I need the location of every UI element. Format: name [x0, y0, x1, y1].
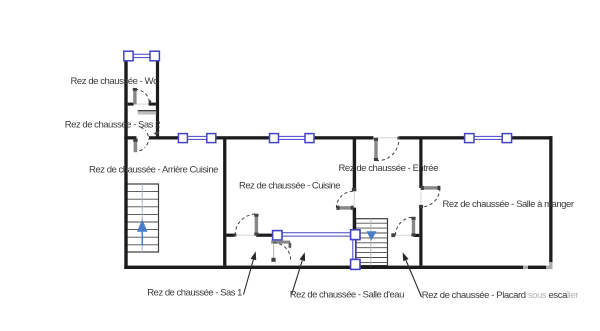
door Sas2 leaf cap [133, 139, 137, 142]
svg-text:Rez de chaussée - Salle à mang: Rez de chaussée - Salle à manger [443, 199, 574, 210]
window W1 square right [207, 134, 216, 143]
door Sas2 swing mark [154, 130, 160, 135]
leader line Placard [406, 260, 422, 297]
door C leaf cap right [437, 186, 440, 190]
leader arrowhead Sas1 [251, 251, 257, 260]
window W3 line [474, 136, 502, 139]
glass wall G2 lines [353, 240, 356, 260]
stairs S1 centerline [141, 184, 143, 252]
window W0 square right [150, 51, 159, 61]
door Wc leaf cap [133, 88, 137, 91]
svg-text:Rez de chaussée - Sas 1: Rez de chaussée - Sas 1 [147, 288, 242, 299]
wall interior V1 [223, 140, 226, 266]
svg-text:Rez de chaussée - Sas 2: Rez de chaussée - Sas 2 [65, 120, 160, 131]
door D leaf cap top [411, 217, 415, 220]
window W3 square left [465, 134, 474, 143]
glass square B [351, 230, 360, 240]
svg-text:Rez de chaussée - Arrière Cuis: Rez de chaussée - Arrière Cuisine [89, 165, 218, 176]
stairs S2 down-arrow [366, 231, 376, 240]
door entrance leaf cap bottom [374, 158, 378, 161]
door Sas1 arc [235, 214, 256, 235]
door entrance hinge stub [397, 137, 400, 140]
window W0 line [133, 54, 150, 57]
window W3 square right [502, 134, 511, 143]
stairs S1 box (Arriere Cuisine) [126, 184, 158, 252]
wall H1 stub left [226, 234, 234, 237]
stairs S1 up-arrow [137, 219, 148, 245]
leader line Sas1 [244, 260, 254, 295]
wall top segment f [512, 136, 553, 139]
door Sas1 hinge stub [234, 234, 237, 237]
stairs S1 treads [126, 192, 158, 245]
door C arc [421, 188, 440, 207]
door E (salle d'eau) top bar [271, 241, 290, 244]
leader arrowhead Salle d'eau [300, 252, 306, 261]
wall top segment b [149, 136, 179, 139]
door E hinge cap [271, 258, 275, 262]
door B arc [336, 191, 353, 208]
door B (cuisine) leaf [337, 206, 354, 209]
door D arc [396, 217, 414, 235]
door entrance arc [376, 139, 399, 160]
window W1 square left [178, 134, 187, 143]
window W2 square right [305, 134, 314, 143]
door D leaf [412, 217, 415, 235]
window W2 line [279, 136, 306, 139]
wall Wc floor right [149, 103, 156, 106]
wall interior V2 upper [353, 140, 356, 192]
wall bottom segment b [528, 266, 546, 269]
wall bottom grey notch [523, 266, 528, 269]
glass square C [351, 259, 360, 269]
glass wall G1 lines [282, 233, 351, 236]
svg-text:Rez de chaussée - Entrée: Rez de chaussée - Entrée [339, 163, 439, 174]
door Sas1 leaf [255, 214, 258, 235]
door C leaf [421, 186, 440, 189]
door B leaf cap left [337, 206, 340, 210]
wall outer right corner grey [549, 262, 552, 269]
svg-text:Rez de chaussée - Salle d'eau: Rez de chaussée - Salle d'eau [290, 290, 404, 301]
stairs S2 treads [356, 223, 388, 262]
wall H2 stub [414, 234, 420, 237]
glass square A [273, 231, 282, 240]
door Sas1 threshold [235, 234, 256, 236]
wall interior V3 upper [419, 140, 422, 189]
door Wc arc [135, 89, 150, 104]
door Wc hinge stub [149, 100, 152, 103]
wall Wc floor left [128, 103, 134, 106]
door Wc leaf [133, 88, 136, 104]
wall bottom segment a [124, 266, 523, 269]
wall bottom corner grey [546, 266, 552, 269]
door B wall cap [352, 188, 356, 191]
door B threshold [353, 191, 355, 207]
door E arc [274, 243, 291, 260]
wall top segment e [399, 136, 465, 139]
svg-text:Rez de chaussée - Wc: Rez de chaussée - Wc [71, 76, 159, 87]
door Sas2 arc [138, 127, 148, 151]
window W2 square left [270, 134, 279, 143]
window W1 line [187, 136, 206, 139]
svg-text:Rez de chaussée - Cuisine: Rez de chaussée - Cuisine [239, 180, 340, 191]
door D leaf cap bottom [411, 233, 415, 236]
door Sas1 leaf cap bottom [254, 233, 258, 236]
wall outer left [124, 59, 127, 269]
door C leaf cap left [421, 186, 424, 190]
leader line Salle d'eau [292, 260, 303, 294]
wall outer right [549, 136, 552, 262]
door D hinge block [391, 233, 395, 237]
wall top segment d [314, 136, 374, 139]
shelf Sas2 [138, 110, 156, 114]
wall tower right [156, 59, 159, 137]
door B leaf cap right [351, 206, 354, 210]
door entrance leaf cap top [374, 138, 378, 141]
door E stub [289, 243, 292, 248]
svg-text:Rez de chaussée - Placard sous: Rez de chaussée - Placard sous escalier [422, 290, 578, 301]
wall interior V3 lower [419, 206, 422, 266]
wall interior V2 lower [353, 208, 356, 230]
wall top segment c [216, 136, 270, 139]
window W0 square left [124, 51, 133, 61]
door C (salle a manger) threshold [420, 188, 422, 206]
door Sas1 leaf cap top [254, 214, 258, 217]
wall H1 stub right [256, 234, 272, 237]
door entrance leaf [374, 138, 377, 160]
door entrance threshold [374, 137, 399, 139]
door C wall cap [419, 205, 423, 208]
shelf Sas2 top edge [138, 110, 156, 112]
door Wc threshold [134, 103, 149, 105]
door Sas2 leaf [134, 139, 138, 152]
leader arrowhead Placard [403, 252, 409, 261]
door D (placard) threshold [395, 234, 412, 236]
stairs S2 box (central) [356, 219, 388, 266]
door E leaf line [273, 244, 275, 258]
stairs S2 centerline [370, 219, 372, 266]
wall top segment a [124, 136, 136, 139]
